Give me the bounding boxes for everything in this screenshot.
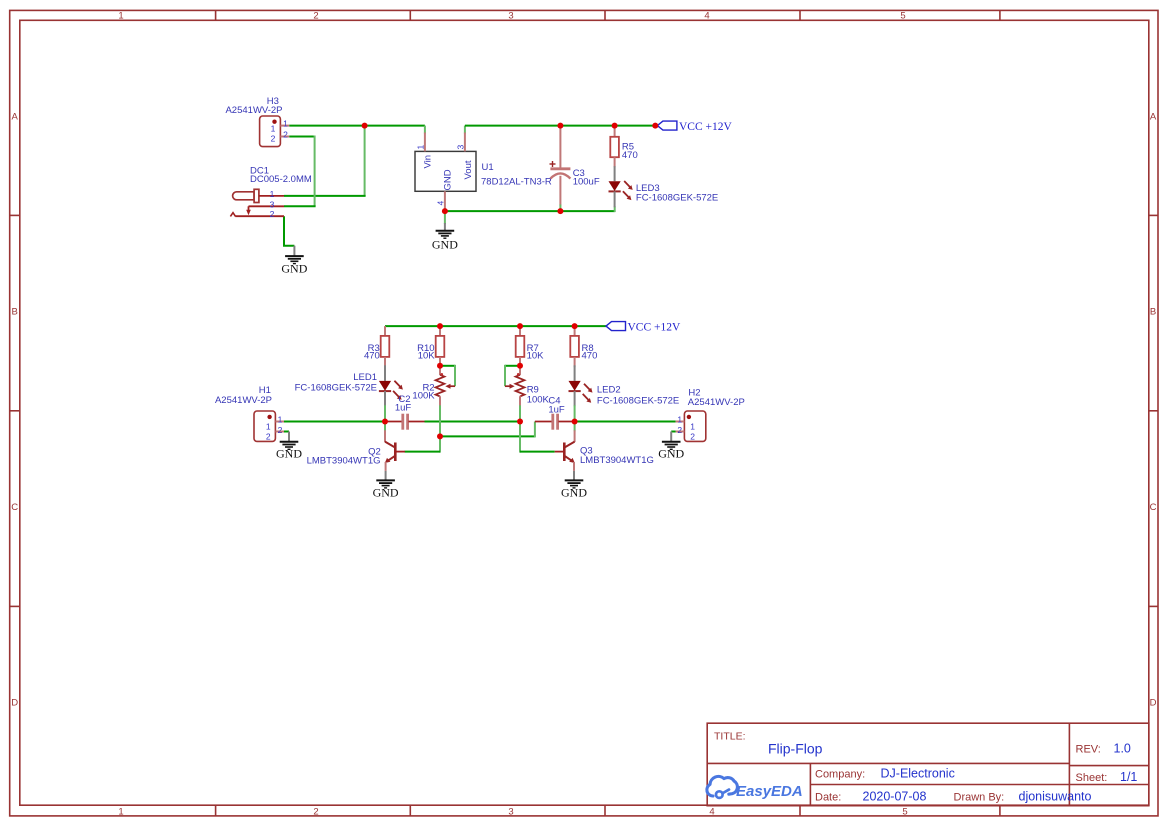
R5 labels: [622, 142, 638, 162]
potentiometer R9: [505, 366, 524, 407]
svg-text:Date:: Date:: [815, 792, 841, 804]
node junction R5 top: [612, 123, 618, 129]
wire R2 bottom vertical: [439, 405, 441, 452]
svg-text:DC005-2.0MM: DC005-2.0MM: [250, 174, 312, 185]
resistor R10: [436, 326, 445, 366]
ground H2: [658, 432, 684, 461]
resistor R3: [381, 326, 390, 366]
wire Vout to VCC: [465, 125, 658, 127]
LED3: [609, 166, 633, 207]
svg-text:2: 2: [690, 431, 695, 441]
svg-text:A: A: [1150, 112, 1157, 123]
R9 labels: [527, 385, 550, 406]
C2 labels: [395, 394, 412, 414]
svg-text:1: 1: [690, 421, 695, 431]
node junction Q2 collector: [382, 419, 388, 425]
svg-text:B: B: [12, 307, 18, 318]
svg-text:1uF: 1uF: [548, 404, 565, 415]
svg-text:2: 2: [313, 10, 318, 21]
LED2 labels: [597, 385, 679, 407]
svg-text:2: 2: [677, 425, 682, 435]
svg-text:U1: U1: [482, 162, 494, 173]
R7 labels: [527, 343, 545, 362]
wire LED2 to junction: [574, 405, 576, 431]
svg-text:2020-07-08: 2020-07-08: [863, 790, 927, 804]
svg-text:DJ-Electronic: DJ-Electronic: [881, 767, 955, 781]
transistor Q3: [555, 430, 575, 471]
R2 labels: [412, 382, 435, 401]
svg-text:470: 470: [364, 351, 380, 362]
svg-text:3: 3: [270, 199, 275, 209]
svg-text:VCC +12V: VCC +12V: [628, 321, 682, 333]
power flag VCC +12V mid: [606, 321, 681, 333]
svg-text:FC-1608GEK-572E: FC-1608GEK-572E: [295, 383, 377, 394]
svg-text:B: B: [1150, 307, 1156, 318]
H3 labels: [225, 96, 282, 116]
node junction Q3 base: [517, 419, 523, 425]
transistor Q2: [385, 430, 405, 471]
svg-text:D: D: [11, 698, 18, 709]
svg-text:LED1: LED1: [353, 372, 377, 383]
ground under DC1: [281, 246, 307, 276]
svg-text:A: A: [12, 112, 19, 123]
Q2 labels: [307, 447, 381, 467]
svg-text:1: 1: [118, 807, 123, 818]
svg-text:REV:: REV:: [1076, 744, 1101, 756]
svg-text:5: 5: [900, 10, 905, 21]
svg-text:1/1: 1/1: [1120, 770, 1137, 784]
svg-text:1: 1: [266, 421, 271, 431]
svg-text:TITLE:: TITLE:: [714, 731, 746, 743]
potentiometer R2: [436, 366, 455, 407]
wire vertical H3 pin2 to DC1 pin3: [314, 136, 316, 207]
capacitor C3: [550, 126, 571, 212]
svg-text:1uF: 1uF: [395, 403, 412, 414]
svg-text:1: 1: [270, 189, 275, 199]
svg-text:100K: 100K: [527, 394, 550, 405]
ground under Q3: [561, 471, 587, 500]
ground under Q2: [373, 471, 399, 500]
H1 labels: [215, 385, 272, 406]
svg-text:D: D: [1150, 698, 1157, 709]
connector H3: [260, 116, 290, 147]
wire bottom rail: [445, 210, 615, 212]
svg-text:3: 3: [508, 10, 513, 21]
svg-text:GND: GND: [276, 447, 302, 461]
svg-text:470: 470: [622, 150, 638, 161]
connector H1: [254, 411, 284, 441]
node junction U1 GND: [442, 208, 448, 214]
svg-text:1: 1: [278, 415, 283, 425]
wire Q3 base horizontal: [520, 451, 555, 453]
svg-text:78D12AL-TN3-R: 78D12AL-TN3-R: [481, 177, 552, 188]
svg-text:LED2: LED2: [597, 385, 621, 396]
LED2: [569, 365, 593, 406]
svg-text:GND: GND: [658, 447, 684, 461]
LED3 labels: [636, 183, 718, 204]
svg-text:1: 1: [271, 123, 276, 133]
svg-text:4: 4: [709, 807, 714, 818]
node junction R7/R9: [517, 363, 523, 369]
svg-text:GND: GND: [373, 486, 399, 500]
svg-text:FC-1608GEK-572E: FC-1608GEK-572E: [597, 395, 679, 406]
node junction R7 top: [517, 323, 523, 329]
svg-text:Company:: Company:: [815, 768, 865, 780]
wire coupling to C4: [440, 422, 535, 438]
svg-text:GND: GND: [443, 169, 454, 190]
wire VCC rail: [385, 325, 606, 327]
capacitor C2: [385, 414, 425, 430]
svg-text:Drawn By:: Drawn By:: [954, 792, 1005, 804]
R3 labels: [364, 343, 380, 362]
svg-text:Sheet:: Sheet:: [1076, 772, 1108, 784]
EasyEDA logo: [707, 776, 803, 800]
svg-text:A2541WV-2P: A2541WV-2P: [688, 397, 745, 408]
svg-text:4: 4: [436, 201, 446, 206]
resistor R5: [610, 126, 619, 168]
H3 pin numbers: [271, 119, 289, 144]
svg-text:A2541WV-2P: A2541WV-2P: [215, 395, 272, 406]
svg-text:1: 1: [283, 119, 288, 129]
svg-text:Flip-Flop: Flip-Flop: [768, 741, 823, 757]
node junction at 364.6,125.6: [362, 123, 368, 129]
capacitor C4: [535, 414, 575, 430]
TOP CIRCUIT: [225, 96, 732, 275]
wire R9 wiper loop: [505, 365, 520, 386]
svg-text:FC-1608GEK-572E: FC-1608GEK-572E: [636, 193, 718, 204]
connector H2: [676, 411, 706, 441]
wire H3 pin1 to U1 Vin: [289, 125, 425, 127]
R8 labels: [582, 343, 598, 362]
svg-text:1: 1: [416, 145, 426, 150]
LED1: [379, 365, 403, 406]
svg-text:2: 2: [278, 425, 283, 435]
node junction Q2 base: [437, 433, 443, 439]
U1 pin names: [423, 155, 475, 191]
node junction C3 top: [557, 123, 563, 129]
node junction R10/R2: [437, 363, 443, 369]
wire LED1 to junction: [384, 405, 386, 431]
R10 labels: [417, 343, 435, 362]
H2 pin numbers: [677, 415, 695, 442]
svg-text:2: 2: [271, 134, 276, 144]
svg-text:djonisuwanto: djonisuwanto: [1019, 790, 1092, 804]
wire C4 to H2: [575, 421, 676, 423]
wire R2 wiper loop: [440, 365, 455, 386]
C4 labels: [548, 395, 565, 415]
svg-text:3: 3: [508, 807, 513, 818]
svg-text:10K: 10K: [527, 351, 545, 362]
wire DC1 pin2 to GND: [284, 216, 294, 246]
svg-text:100uF: 100uF: [573, 176, 600, 187]
wire H1 pin1 to Q2 collector node: [284, 421, 385, 423]
svg-text:GND: GND: [432, 238, 458, 252]
svg-text:100K: 100K: [412, 391, 435, 402]
svg-text:2: 2: [270, 209, 275, 219]
Q3 labels: [580, 446, 654, 467]
wire DC1 pin1 horizontal: [284, 195, 366, 197]
ground H1: [276, 432, 302, 461]
MIDDLE CIRCUIT: [215, 321, 745, 499]
svg-text:2: 2: [266, 431, 271, 441]
H1 pin numbers: [266, 415, 283, 442]
wire vertical to DC1 pin1: [364, 125, 366, 196]
wire C2 to Q3 base node: [425, 421, 521, 423]
DC1 pin numbers: [270, 189, 275, 219]
node junction C3 bottom: [557, 208, 563, 214]
node junction Q3 collector: [572, 419, 578, 425]
wire H3 pin2: [289, 136, 314, 138]
svg-text:470: 470: [582, 351, 598, 362]
U1 labels: [481, 162, 552, 188]
wire LED3 bottom corner: [614, 206, 616, 212]
svg-text:3: 3: [456, 145, 466, 150]
connector DC1 barrel jack: [230, 189, 284, 216]
svg-text:1: 1: [677, 415, 682, 425]
wire Q3 base vertical: [519, 405, 521, 452]
svg-text:5: 5: [902, 807, 907, 818]
wire H1 pin2 to GND: [284, 431, 289, 433]
U1 pin numbers: [416, 145, 466, 206]
wire H2 pin2 to GND: [671, 431, 675, 433]
LED1 labels: [295, 372, 377, 394]
wire Q2 base horizontal: [405, 451, 441, 453]
DC1 labels: [250, 166, 312, 186]
TITLE BLOCK: [707, 723, 1149, 806]
node junction VCC: [652, 123, 658, 129]
H2 labels: [688, 387, 745, 408]
svg-text:2: 2: [313, 807, 318, 818]
ground under U1: [432, 223, 458, 252]
C3 labels: [573, 168, 600, 187]
svg-text:Vout: Vout: [463, 160, 474, 179]
wire DC1 pin3 horizontal: [284, 205, 316, 207]
svg-text:10K: 10K: [418, 351, 436, 362]
svg-text:EasyEDA: EasyEDA: [736, 783, 803, 800]
node junction R10 top: [437, 323, 443, 329]
svg-text:GND: GND: [561, 486, 587, 500]
svg-text:2: 2: [283, 130, 288, 140]
svg-text:C: C: [1150, 502, 1157, 513]
svg-text:C: C: [11, 502, 18, 513]
svg-text:GND: GND: [281, 261, 307, 275]
resistor R7: [516, 326, 525, 366]
node junction R8 top: [572, 323, 578, 329]
resistor R8: [570, 326, 579, 367]
svg-text:A2541WV-2P: A2541WV-2P: [225, 105, 282, 116]
svg-text:LMBT3904WT1G: LMBT3904WT1G: [307, 456, 381, 467]
svg-text:1: 1: [118, 10, 123, 21]
svg-text:Vin: Vin: [423, 155, 434, 169]
svg-text:LMBT3904WT1G: LMBT3904WT1G: [580, 455, 654, 466]
svg-text:4: 4: [704, 10, 709, 21]
power flag VCC +12V top: [657, 121, 732, 133]
svg-text:1.0: 1.0: [1114, 742, 1131, 756]
regulator U1: [415, 126, 476, 212]
svg-text:VCC +12V: VCC +12V: [679, 121, 733, 133]
wire U1 GND down: [444, 211, 446, 224]
